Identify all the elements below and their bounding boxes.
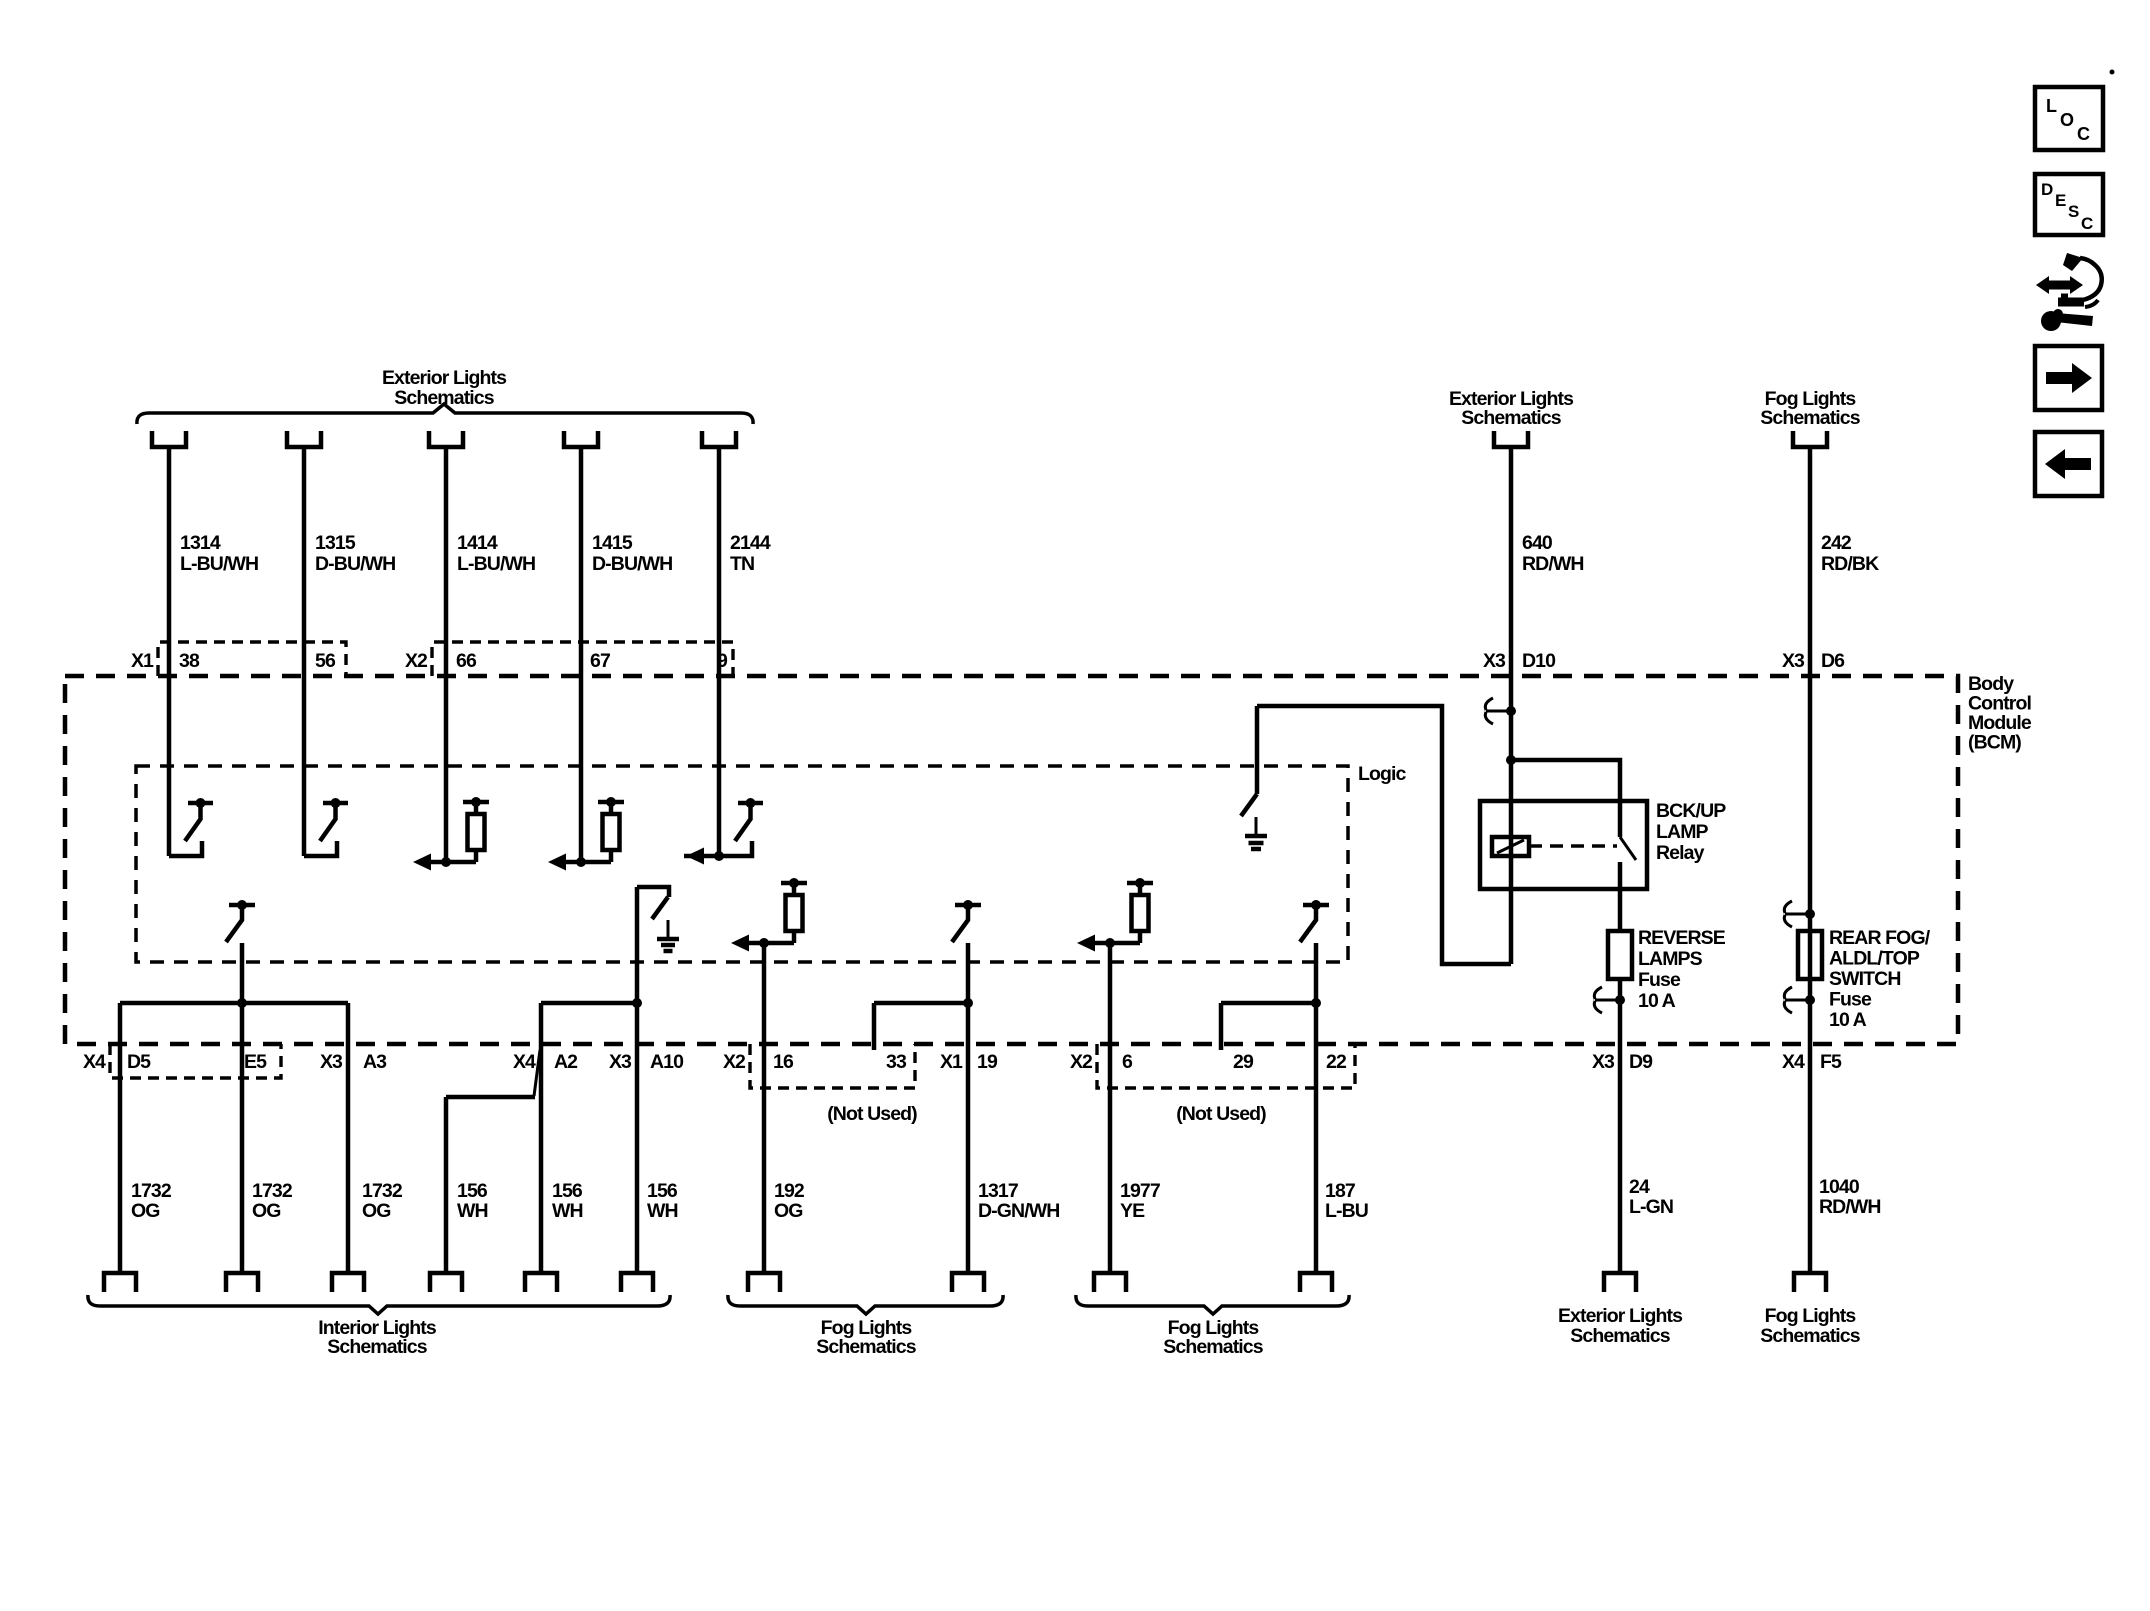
svg-text:X4: X4 (83, 1051, 106, 1073)
svg-text:X2: X2 (405, 650, 428, 672)
wire 1315 D-BU/WH (302, 449, 307, 856)
svg-text:1732: 1732 (362, 1180, 403, 1202)
svg-text:156: 156 (552, 1180, 583, 1202)
brace exterior lights group (137, 404, 753, 424)
svg-text:Schematics: Schematics (1760, 1325, 1860, 1347)
svg-text:Schematics: Schematics (327, 1336, 427, 1358)
connector terminal 156 (WH) (525, 1273, 557, 1292)
Logic dashed box (136, 766, 1348, 962)
svg-text:TN: TN (730, 553, 754, 575)
value label 24 L-GN (1629, 1176, 1673, 1218)
ground symbol of S5 (657, 920, 679, 951)
svg-text:Schematics: Schematics (1461, 407, 1561, 429)
svg-text:(Not Used): (Not Used) (1176, 1103, 1266, 1125)
svg-text:RD/WH: RD/WH (1522, 553, 1584, 575)
svg-text:24: 24 (1629, 1176, 1650, 1198)
switch S5 with ground (A10) (637, 887, 669, 919)
arrow out left at S3 (684, 854, 719, 859)
in-line connector clip above rear fog fuse (1784, 901, 1815, 927)
svg-text:156: 156 (647, 1180, 678, 1202)
svg-text:X2: X2 (723, 1051, 746, 1073)
value label 1415 D-BU/WH (592, 532, 672, 575)
svg-text:WH: WH (457, 1200, 488, 1222)
svg-text:D-GN/WH: D-GN/WH (978, 1200, 1059, 1222)
value label 156 WH (457, 1180, 488, 1222)
svg-text:38: 38 (179, 650, 200, 672)
svg-text:A10: A10 (650, 1051, 684, 1073)
svg-text:SWITCH: SWITCH (1829, 968, 1901, 990)
svg-text:1315: 1315 (315, 532, 356, 554)
connector terminal 1315 (287, 431, 321, 447)
svg-text:192: 192 (774, 1180, 805, 1202)
label REAR FOG/ALDL/TOP SWITCH Fuse 10 A (1829, 927, 1931, 1031)
svg-text:1314: 1314 (180, 532, 221, 554)
value label 1040 RD/WH (1819, 1176, 1881, 1218)
svg-text:D9: D9 (1629, 1051, 1653, 1073)
label Exterior Lights Schematics (bottom right) (1558, 1305, 1683, 1347)
svg-text:1040: 1040 (1819, 1176, 1860, 1198)
wire relay coil return loop (1257, 706, 1511, 964)
svg-text:X3: X3 (320, 1051, 343, 1073)
in-line connector clip below rear fog fuse (1784, 987, 1815, 1013)
connector box X2 pins 16 33 (750, 1044, 915, 1088)
svg-text:X4: X4 (513, 1051, 536, 1073)
junction dot E5 bus (237, 998, 247, 1008)
svg-text:9: 9 (717, 650, 728, 672)
junction dot A10 bus (632, 998, 642, 1008)
wire 1414 L-BU/WH (444, 449, 449, 862)
connector terminal 156 (WH) (621, 1273, 653, 1292)
connector terminal 1732 (OG) (332, 1273, 364, 1292)
svg-text:E: E (2055, 191, 2066, 210)
connector terminal 156 (WH) (430, 1273, 462, 1292)
connector terminal 1317 (D-GN/WH) (952, 1273, 984, 1292)
relay BCK/UP LAMP box (1480, 801, 1647, 889)
wire to relay contact (1511, 760, 1620, 837)
icon button LOC (2035, 87, 2103, 150)
label Exterior Lights Schematics (right top) (1449, 388, 1574, 429)
connector box X1 pins 38 56 (158, 642, 346, 676)
label Fog Lights Schematics (right top) (1760, 388, 1860, 429)
resistor R4 with arrow (wire 1977, pin 6) (1077, 878, 1153, 952)
svg-text:X1: X1 (940, 1051, 963, 1073)
connector terminal 1732 (OG) (104, 1273, 136, 1292)
svg-text:LAMP: LAMP (1656, 821, 1709, 843)
svg-text:1732: 1732 (252, 1180, 293, 1202)
label Interior Lights Schematics (318, 1317, 437, 1358)
wire 1314 L-BU/WH (167, 449, 172, 856)
svg-text:Schematics: Schematics (1163, 1336, 1263, 1358)
svg-text:1415: 1415 (592, 532, 633, 554)
svg-text:1732: 1732 (131, 1180, 172, 1202)
connector terminal 192 (OG) (748, 1273, 780, 1292)
svg-text:(Not Used): (Not Used) (827, 1103, 917, 1125)
connector box X2 pins 66 67 9 (432, 642, 733, 676)
svg-text:RD/WH: RD/WH (1819, 1196, 1881, 1218)
svg-text:10 A: 10 A (1638, 990, 1676, 1012)
svg-text:67: 67 (590, 650, 610, 672)
svg-text:22: 22 (1326, 1051, 1347, 1073)
svg-text:29: 29 (1233, 1051, 1254, 1073)
svg-text:REVERSE: REVERSE (1638, 927, 1726, 949)
junction dot S3 (714, 851, 724, 861)
branch wire to pin 33 (874, 1001, 968, 1006)
junction dot pin22 branch (1311, 998, 1321, 1008)
Body Control Module (BCM) dashed box (65, 676, 1958, 1044)
value label 1414 L-BU/WH (457, 532, 535, 575)
wire 1415 D-BU/WH (579, 449, 584, 862)
in-line connector clip on 640 (1485, 698, 1516, 724)
svg-text:C: C (2081, 214, 2093, 233)
fuse REVERSE LAMPS (1608, 931, 1632, 979)
svg-text:Fog Lights: Fog Lights (1765, 1305, 1857, 1327)
resistor R2 with arrow (wire 1415) (548, 797, 624, 871)
svg-text:X4: X4 (1782, 1051, 1805, 1073)
value label 1732 OG (131, 1180, 172, 1222)
svg-text:BCK/UP: BCK/UP (1656, 800, 1726, 822)
svg-text:X1: X1 (131, 650, 154, 672)
value label 2144 TN (730, 532, 771, 575)
svg-text:10 A: 10 A (1829, 1009, 1867, 1031)
svg-text:66: 66 (456, 650, 477, 672)
bus wire A2-A10 (541, 1001, 637, 1006)
value label 242 RD/BK (1821, 532, 1879, 575)
connector terminal 1414 (429, 431, 463, 447)
label REVERSE LAMPS Fuse 10 A (1638, 927, 1726, 1012)
label BCK/UP LAMP Relay (1656, 800, 1726, 864)
svg-text:A2: A2 (554, 1051, 578, 1073)
branch wire to first 156 wire (446, 1095, 535, 1100)
value label 156 WH (647, 1180, 678, 1222)
svg-text:OG: OG (362, 1200, 391, 1222)
switch S4 (E5 output) (226, 900, 255, 942)
junction dot 640 relay feed (1506, 755, 1516, 765)
svg-text:33: 33 (886, 1051, 907, 1073)
svg-text:D: D (2041, 180, 2053, 199)
connector terminal 24 (1604, 1273, 1636, 1292)
value label 1315 D-BU/WH (315, 532, 395, 575)
switch S7 (wire 187, pin 22) (1300, 900, 1329, 942)
connector terminal 242 (1793, 431, 1827, 447)
icon button DESC (2035, 174, 2103, 235)
svg-text:D5: D5 (127, 1051, 151, 1073)
svg-text:Relay: Relay (1656, 842, 1705, 864)
svg-text:1977: 1977 (1120, 1180, 1160, 1202)
value label 156 WH (552, 1180, 583, 1222)
svg-text:D6: D6 (1821, 650, 1845, 672)
svg-text:D10: D10 (1522, 650, 1556, 672)
svg-text:Exterior Lights: Exterior Lights (1558, 1305, 1683, 1327)
wire 640 RD/WH (1509, 449, 1514, 964)
wire 187 down (1314, 943, 1319, 1271)
svg-text:X3: X3 (1782, 650, 1805, 672)
connector terminal 1977 (YE) (1094, 1273, 1126, 1292)
value label 192 OG (774, 1180, 805, 1222)
svg-text:Fuse: Fuse (1638, 969, 1681, 991)
svg-text:L-BU/WH: L-BU/WH (457, 553, 535, 575)
relay switch blade (1620, 837, 1636, 860)
value label 187 L-BU (1325, 1180, 1368, 1222)
label Fog Lights Schematics (bottom 2) (1163, 1317, 1263, 1358)
svg-text:RD/BK: RD/BK (1821, 553, 1879, 575)
svg-text:Logic: Logic (1358, 763, 1407, 785)
value label 1317 D-GN/WH (978, 1180, 1059, 1222)
value label 1732 OG (362, 1180, 403, 1222)
switch S8 with ground (relay driver) (1241, 706, 1257, 816)
wire 1317 down (966, 943, 971, 1271)
wire 242 RD/BK (1808, 449, 1813, 1271)
speck (2110, 70, 2115, 75)
svg-text:X3: X3 (1483, 650, 1506, 672)
svg-text:1317: 1317 (978, 1180, 1018, 1202)
brace interior lights group (88, 1295, 670, 1314)
switch S6 (wire 1317, pin 19) (952, 900, 981, 942)
in-line connector clip below reverse fuse (1594, 987, 1625, 1013)
svg-text:L-GN: L-GN (1629, 1196, 1673, 1218)
svg-text:(BCM): (BCM) (1968, 732, 2021, 754)
wire 156 first down (444, 1097, 449, 1271)
svg-text:ALDL/TOP: ALDL/TOP (1829, 948, 1920, 970)
svg-text:C: C (2077, 124, 2090, 144)
resistor R1 with arrow (wire 1414) (413, 797, 489, 871)
wire A10 down (635, 887, 640, 1271)
connector terminal 187 (L-BU) (1300, 1273, 1332, 1292)
svg-text:WH: WH (552, 1200, 583, 1222)
svg-text:LAMPS: LAMPS (1638, 948, 1703, 970)
svg-text:Exterior Lights: Exterior Lights (382, 367, 507, 389)
svg-text:S: S (2068, 202, 2079, 221)
branch wire to pin 29 (1221, 1001, 1316, 1006)
svg-text:2144: 2144 (730, 532, 771, 554)
icon button next arrow (2035, 346, 2102, 410)
svg-text:Schematics: Schematics (816, 1336, 916, 1358)
svg-text:56: 56 (315, 650, 336, 672)
relay coil (1492, 837, 1529, 856)
svg-text:187: 187 (1325, 1180, 1355, 1202)
svg-text:16: 16 (773, 1051, 794, 1073)
svg-text:L-BU: L-BU (1325, 1200, 1368, 1222)
relay coil-contact dashed link (1529, 844, 1617, 848)
label Fog Lights Schematics (bottom 1) (816, 1317, 916, 1358)
bus wire D5-E5-A3 (120, 1001, 348, 1006)
svg-text:REAR FOG/: REAR FOG/ (1829, 927, 1931, 949)
svg-text:19: 19 (977, 1051, 998, 1073)
label Exterior Lights Schematics (top left) (382, 367, 507, 409)
svg-text:A3: A3 (363, 1051, 387, 1073)
wire A3 down (346, 1003, 351, 1271)
svg-text:OG: OG (774, 1200, 803, 1222)
svg-text:242: 242 (1821, 532, 1852, 554)
icon button back arrow (2035, 432, 2102, 496)
wire relay output (1618, 862, 1623, 931)
svg-text:L: L (2046, 96, 2057, 116)
value label 1732 OG (252, 1180, 293, 1222)
wire D5 down (118, 1003, 123, 1271)
svg-text:L-BU/WH: L-BU/WH (180, 553, 258, 575)
svg-text:156: 156 (457, 1180, 488, 1202)
svg-text:X3: X3 (1592, 1051, 1615, 1073)
svg-text:X3: X3 (609, 1051, 632, 1073)
connector terminal 1040 (1794, 1273, 1826, 1292)
connector box X2 pins 6 29 22 (1097, 1044, 1355, 1088)
label Fog Lights Schematics (bottom right) (1760, 1305, 1860, 1347)
jog line at pin A2 (534, 1050, 540, 1096)
svg-text:F5: F5 (1820, 1051, 1842, 1073)
svg-text:1414: 1414 (457, 532, 498, 554)
svg-text:Schematics: Schematics (1570, 1325, 1670, 1347)
wire 1977 down (1108, 943, 1113, 1271)
svg-text:D-BU/WH: D-BU/WH (592, 553, 672, 575)
connector box X4 pins D5 E5 (110, 1044, 281, 1078)
svg-text:Fuse: Fuse (1829, 989, 1872, 1011)
svg-text:X2: X2 (1070, 1051, 1093, 1073)
label Body Control Module (BCM) (1968, 673, 2032, 754)
wire below reverse fuse (1618, 979, 1623, 1271)
wire A2 down (539, 1003, 544, 1271)
connector terminal 1415 (564, 431, 598, 447)
resistor R3 with arrow (wire 192, pin 16) (731, 878, 807, 952)
value label 1314 L-BU/WH (180, 532, 258, 575)
brace fog lights group 2 (1076, 1295, 1349, 1314)
value label 640 RD/WH (1522, 532, 1584, 575)
fuse REAR FOG/ALDL/TOP SWITCH (1798, 931, 1822, 979)
svg-text:WH: WH (647, 1200, 678, 1222)
svg-text:E5: E5 (244, 1051, 267, 1073)
svg-text:6: 6 (1122, 1051, 1133, 1073)
connector terminal 2144 (702, 431, 736, 447)
switch S1 (wire 1314) (169, 798, 213, 856)
svg-text:YE: YE (1120, 1200, 1145, 1222)
svg-text:O: O (2060, 110, 2074, 130)
ground symbol of S8 (1245, 817, 1267, 849)
connector terminal 1314 (152, 431, 186, 447)
svg-text:OG: OG (252, 1200, 281, 1222)
wire 192 down (762, 943, 767, 1271)
icon tool double-arrow and wrench (2036, 253, 2102, 331)
switch S2 (wire 1315) (304, 798, 348, 856)
wire E5 down (240, 943, 245, 1271)
connector terminal 1732 (OG) (226, 1273, 258, 1292)
svg-text:640: 640 (1522, 532, 1553, 554)
wire 2144 TN (717, 449, 722, 856)
svg-text:D-BU/WH: D-BU/WH (315, 553, 395, 575)
svg-text:Schematics: Schematics (1760, 407, 1860, 429)
switch S3 (wire 2144) (719, 798, 763, 856)
brace fog lights group 1 (728, 1295, 1003, 1314)
svg-text:OG: OG (131, 1200, 160, 1222)
junction dot pin19 branch (963, 998, 973, 1008)
value label 1977 YE (1120, 1180, 1160, 1222)
connector terminal 640 (1494, 431, 1528, 447)
